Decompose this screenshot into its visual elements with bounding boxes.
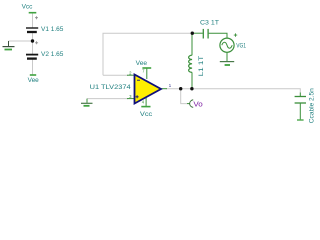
svg-text:VG1: VG1 xyxy=(236,42,246,49)
svg-text:Vcc: Vcc xyxy=(22,4,34,11)
svg-text:4: 4 xyxy=(142,99,145,104)
svg-text:Ccable 2.5n: Ccable 2.5n xyxy=(309,88,316,124)
svg-text:Vo: Vo xyxy=(193,102,203,109)
svg-text:C3 1T: C3 1T xyxy=(200,19,219,26)
svg-text:U1 TLV2374: U1 TLV2374 xyxy=(90,84,131,91)
svg-text:7: 7 xyxy=(142,69,145,74)
svg-text:1: 1 xyxy=(169,83,172,88)
svg-text:Vee: Vee xyxy=(28,77,40,84)
svg-text:V2 1.65: V2 1.65 xyxy=(41,51,64,58)
svg-text:L1 1T: L1 1T xyxy=(198,56,205,77)
svg-text:V1 1.65: V1 1.65 xyxy=(41,26,64,33)
svg-text:Vcc: Vcc xyxy=(140,111,153,118)
svg-text:Vee: Vee xyxy=(136,60,148,67)
